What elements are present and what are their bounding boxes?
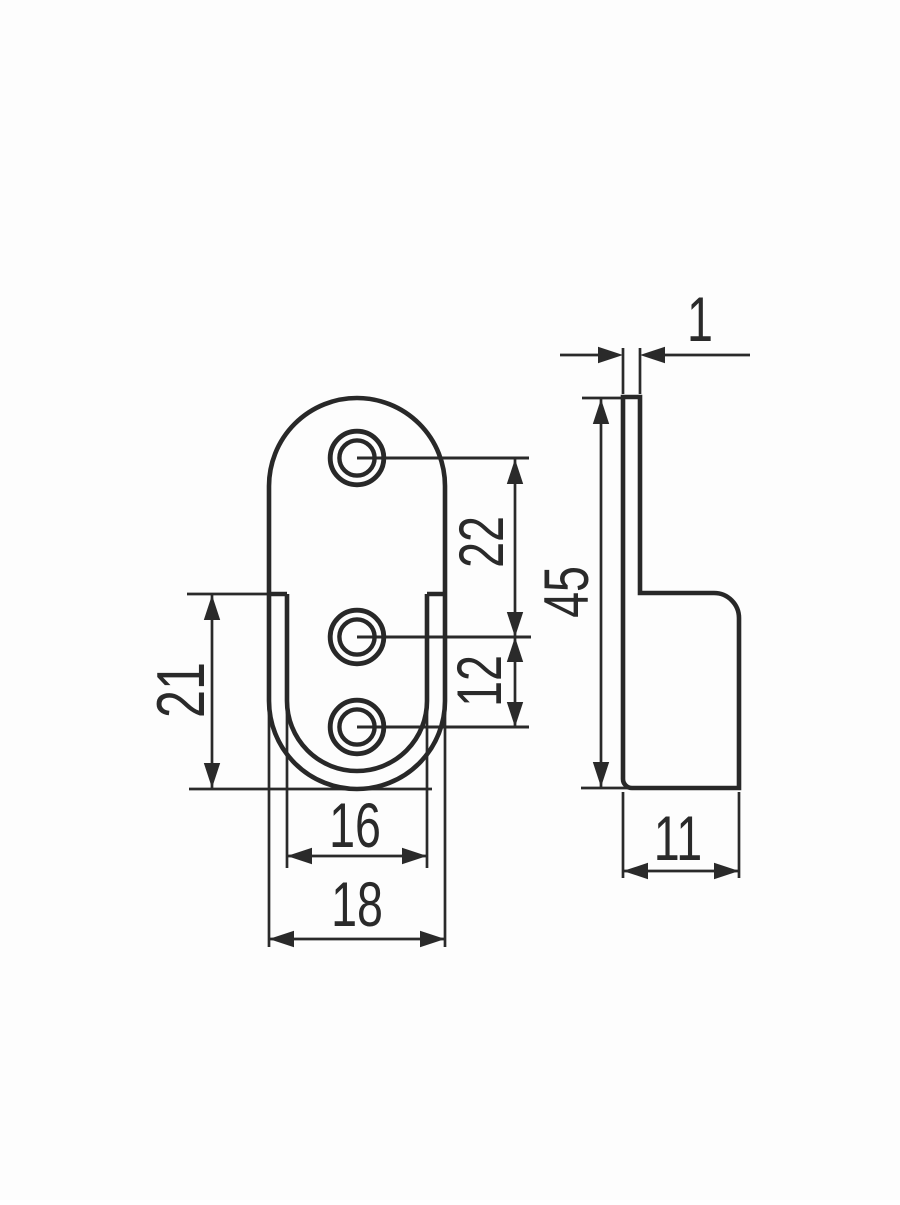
svg-text:22: 22	[446, 516, 516, 568]
svg-text:45: 45	[531, 566, 601, 618]
svg-text:18: 18	[331, 869, 383, 939]
svg-text:11: 11	[654, 803, 702, 873]
svg-text:12: 12	[444, 655, 514, 707]
svg-text:21: 21	[143, 662, 219, 718]
svg-text:16: 16	[329, 790, 381, 860]
svg-text:1: 1	[687, 284, 713, 354]
